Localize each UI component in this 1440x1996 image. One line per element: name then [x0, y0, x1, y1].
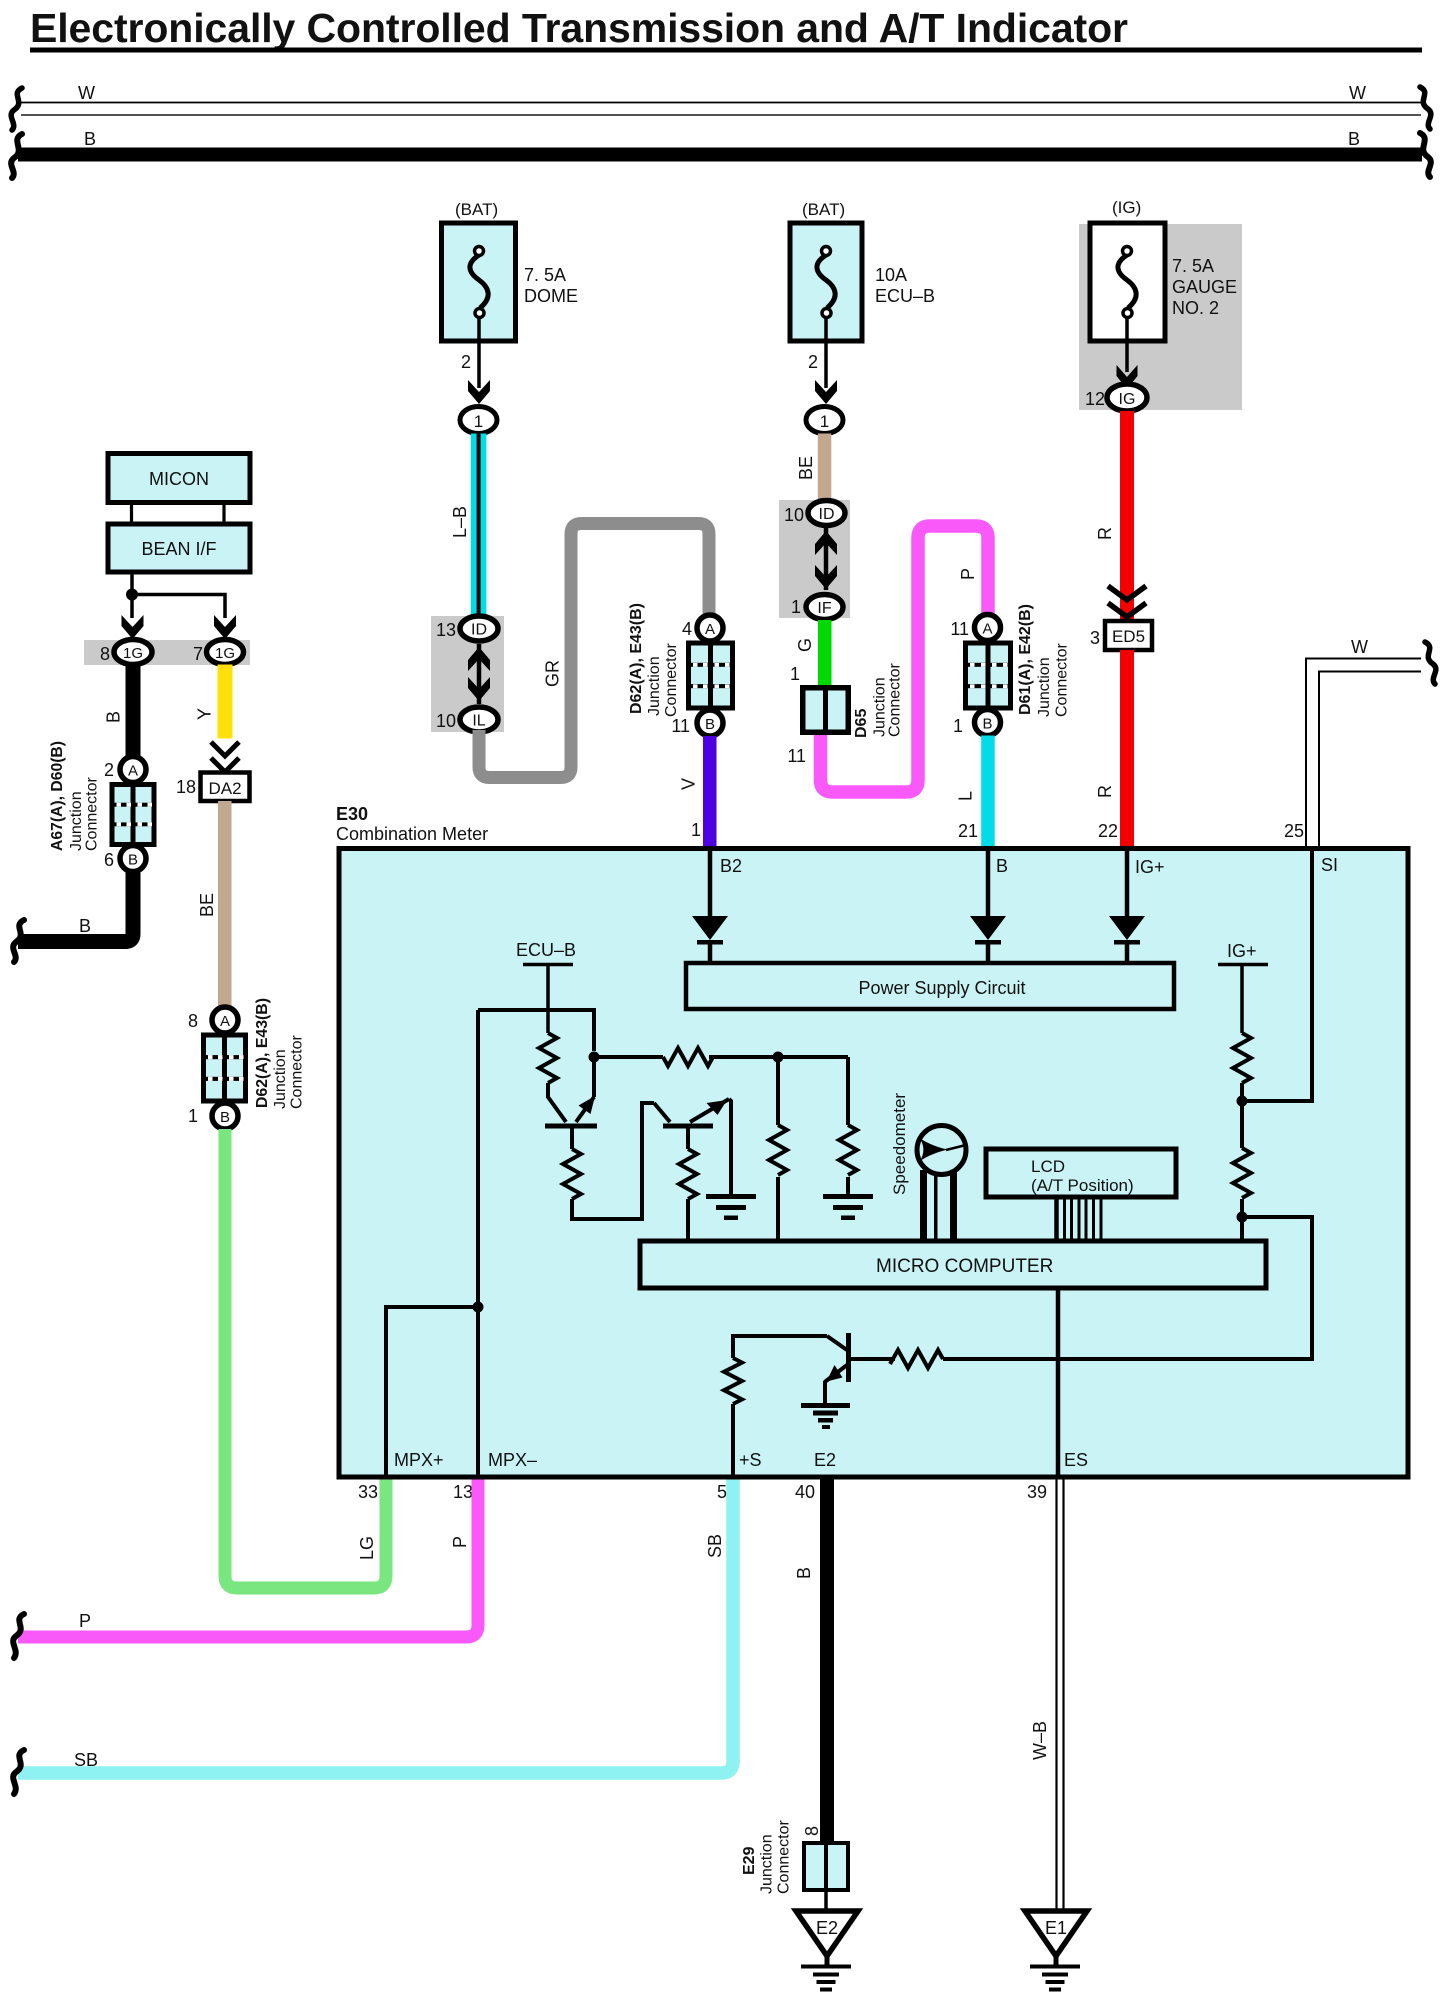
wire R6 to ground G2	[846, 1177, 850, 1195]
wire MPX branch horizontal	[478, 1010, 594, 1051]
svg-text:A: A	[220, 1013, 230, 1030]
connector circle B (D62)	[212, 1103, 238, 1129]
svg-text:Connector: Connector	[1054, 643, 1071, 717]
wire SB	[18, 1480, 733, 1774]
svg-text:D62(A), E43(B): D62(A), E43(B)	[254, 998, 271, 1108]
wire fuse GAUGE to IG	[1125, 317, 1129, 372]
arrow into connector IG	[1117, 365, 1138, 389]
svg-text:11: 11	[950, 619, 969, 639]
resistor R3	[679, 1149, 697, 1199]
gray band 1G	[84, 640, 250, 665]
svg-text:(BAT): (BAT)	[455, 200, 498, 219]
svg-text:IG+: IG+	[1227, 941, 1257, 961]
connector oval ID2	[808, 501, 845, 526]
svg-text:Power Supply Circuit: Power Supply Circuit	[858, 978, 1025, 998]
svg-text:Junction: Junction	[68, 791, 85, 851]
wire LG	[225, 1129, 386, 1588]
node C dot (SI join)	[1237, 1096, 1248, 1107]
svg-text:B: B	[982, 716, 992, 733]
svg-text:Connector: Connector	[289, 1035, 306, 1109]
wire node B down	[776, 1057, 780, 1125]
wire R upper	[1120, 411, 1134, 623]
svg-text:1: 1	[820, 412, 829, 431]
svg-text:SI: SI	[1321, 855, 1338, 875]
svg-text:1: 1	[791, 597, 801, 617]
wire W bus top	[21, 103, 1421, 116]
svg-text:ECU–B: ECU–B	[516, 940, 576, 960]
svg-text:13: 13	[453, 1482, 473, 1502]
box E30 Combination Meter	[339, 849, 1408, 1478]
svg-text:E29: E29	[741, 1846, 758, 1875]
speedometer	[917, 1126, 966, 1244]
wire fuse ECU-B to connector 1	[824, 317, 828, 388]
svg-text:R: R	[1095, 785, 1115, 798]
wire B to left break	[18, 871, 133, 942]
svg-text:B: B	[705, 716, 715, 733]
svg-text:+S: +S	[739, 1450, 762, 1470]
svg-text:ECU–B: ECU–B	[875, 286, 935, 306]
svg-text:2: 2	[808, 352, 818, 372]
wire MPX+ branch	[386, 1307, 478, 1477]
wire W-B	[1057, 1480, 1064, 1912]
wire L	[981, 736, 995, 847]
fuse 7.5A DOME	[442, 223, 516, 341]
svg-text:Connector: Connector	[84, 777, 101, 851]
svg-text:25: 25	[1284, 821, 1304, 841]
wire Y	[218, 665, 233, 739]
svg-text:BEAN I/F: BEAN I/F	[141, 539, 216, 559]
arrow into 7 1G	[214, 615, 236, 639]
svg-text:8: 8	[100, 644, 110, 664]
svg-text:1: 1	[188, 1106, 198, 1126]
svg-text:E2: E2	[814, 1450, 836, 1470]
svg-text:Y: Y	[195, 708, 215, 720]
break symbol B bus left	[11, 134, 22, 178]
svg-text:BE: BE	[197, 893, 217, 917]
svg-text:3: 3	[1090, 628, 1100, 648]
wire MPX+ vertical long	[476, 1010, 480, 1477]
title underline	[30, 48, 1422, 53]
wire Q3 emitter to ground G3	[825, 1380, 827, 1404]
wire node D to Q3 collector net	[943, 1217, 1312, 1359]
break symbol P left	[13, 1614, 24, 1658]
gray panel GAUGE fuse	[1079, 224, 1242, 410]
break symbol B bus right	[1420, 133, 1431, 177]
svg-text:11: 11	[671, 716, 690, 736]
svg-text:W–B: W–B	[1030, 1721, 1050, 1760]
svg-text:DA2: DA2	[208, 779, 241, 798]
svg-text:1: 1	[474, 412, 483, 431]
junction connector D62(A) E43(B) top	[686, 641, 735, 711]
svg-text:33: 33	[358, 1482, 378, 1502]
svg-text:B2: B2	[720, 856, 742, 876]
resistor R1	[539, 1033, 557, 1083]
box Power Supply Circuit	[686, 963, 1174, 1009]
svg-text:ID: ID	[471, 622, 487, 639]
svg-text:(IG): (IG)	[1112, 198, 1141, 217]
svg-text:21: 21	[958, 821, 978, 841]
svg-text:Connector: Connector	[887, 663, 904, 737]
connector oval 1 (ECU-B)	[806, 407, 843, 434]
svg-text:Electronically Controlled Tran: Electronically Controlled Transmission a…	[30, 5, 1128, 51]
ground G2	[823, 1194, 873, 1220]
node A dot	[589, 1052, 600, 1063]
svg-text:Junction: Junction	[646, 656, 663, 716]
connector circle B (D61)	[975, 710, 1001, 736]
svg-text:(A/T Position): (A/T Position)	[1031, 1176, 1134, 1195]
svg-text:1: 1	[953, 716, 963, 736]
wire R5 to micro computer	[776, 1177, 780, 1243]
connector circle A (D61)	[975, 615, 1001, 641]
svg-text:ID: ID	[819, 506, 835, 523]
connector oval 1G left	[114, 640, 152, 665]
svg-text:1G: 1G	[123, 645, 143, 662]
wire L-B	[471, 434, 487, 617]
svg-text:MICRO COMPUTER: MICRO COMPUTER	[876, 1256, 1053, 1277]
svg-text:6: 6	[104, 850, 114, 870]
wire Q2 emitter to ground G1	[729, 1099, 731, 1195]
box MICRO COMPUTER	[640, 1241, 1266, 1288]
svg-text:Junction: Junction	[759, 1834, 776, 1894]
wire P upper loop	[821, 526, 989, 792]
gray panel ID/IF	[779, 500, 850, 618]
arrow into connector 1 ECU-B	[815, 380, 837, 404]
wire R8 to micro computer	[1240, 1199, 1244, 1243]
wire E29 to ground E2	[824, 1892, 828, 1916]
double chevron arrow into ED5	[1108, 586, 1146, 617]
svg-text:12: 12	[1085, 389, 1105, 409]
svg-text:4: 4	[682, 619, 692, 639]
svg-text:2: 2	[461, 352, 471, 372]
svg-text:Connector: Connector	[776, 1820, 793, 1894]
junction connector D65	[800, 685, 851, 735]
svg-text:LG: LG	[357, 1536, 377, 1560]
wire R9 to Q3	[851, 1357, 895, 1361]
resistor R8	[1233, 1148, 1251, 1198]
wire Q2 base down	[686, 1126, 690, 1149]
svg-text:A: A	[705, 621, 715, 638]
svg-text:40: 40	[795, 1482, 815, 1502]
break symbol W bus left	[11, 88, 22, 130]
svg-text:P: P	[79, 1611, 91, 1631]
wire B2 to diode	[708, 848, 713, 916]
svg-text:E2: E2	[816, 1918, 838, 1938]
connector oval ID	[460, 616, 498, 641]
svg-text:D65: D65	[853, 709, 870, 738]
connector oval IF	[806, 595, 843, 620]
box LCD (A/T Position)	[986, 1149, 1176, 1197]
svg-text:1: 1	[790, 664, 800, 684]
connector box ED5	[1105, 621, 1152, 650]
svg-text:7: 7	[193, 644, 203, 664]
svg-text:BE: BE	[796, 456, 816, 480]
svg-text:11: 11	[787, 746, 806, 766]
supply rail ECU-B	[516, 940, 576, 1033]
svg-text:8: 8	[802, 1826, 822, 1836]
connector oval IL	[460, 707, 498, 732]
box MICON	[108, 454, 250, 503]
ground E1	[1025, 1911, 1087, 1992]
connector box DA2	[201, 773, 250, 802]
wire R4 to corner	[709, 1055, 848, 1059]
wire node A to R4	[594, 1055, 663, 1059]
wire fuse DOME to connector 1	[477, 317, 481, 388]
svg-text:(BAT): (BAT)	[802, 200, 845, 219]
wire B bus top	[18, 148, 1422, 162]
svg-text:7. 5A: 7. 5A	[1172, 256, 1214, 276]
svg-text:IF: IF	[817, 600, 831, 617]
node D dot	[1237, 1212, 1248, 1223]
svg-text:5: 5	[717, 1482, 727, 1502]
fuse 10A ECU-B	[790, 223, 862, 341]
resistor R10	[724, 1358, 742, 1404]
wire Q1 emitter to node A	[592, 1057, 596, 1097]
break symbol W bus right	[1420, 87, 1431, 129]
arrow into 8 1G	[122, 615, 144, 639]
box BEAN I/F	[108, 524, 250, 572]
wire R lower	[1120, 650, 1134, 846]
diode D2 (B)	[970, 916, 1006, 963]
svg-text:E30: E30	[336, 804, 368, 824]
svg-text:MPX–: MPX–	[488, 1450, 537, 1470]
svg-text:2: 2	[104, 760, 114, 780]
svg-text:IL: IL	[472, 713, 485, 730]
svg-text:18: 18	[176, 777, 196, 797]
svg-text:B: B	[104, 711, 124, 723]
wire W to SI	[1306, 659, 1421, 847]
junction arrows ID-IF	[815, 528, 837, 590]
ground G3	[801, 1403, 850, 1429]
connector oval 1G right	[207, 640, 244, 665]
svg-text:B: B	[128, 852, 138, 869]
svg-text:D62(A), E43(B): D62(A), E43(B)	[628, 603, 645, 714]
wire BE upper	[818, 434, 832, 501]
wire R1 to Q1	[546, 1083, 550, 1098]
resistor R7	[1233, 1033, 1251, 1083]
supply rail IG+ internal	[1218, 941, 1268, 1033]
svg-text:A67(A), D60(B): A67(A), D60(B)	[49, 741, 66, 851]
svg-text:A: A	[128, 763, 138, 780]
svg-text:P: P	[450, 1536, 470, 1548]
connector oval IG	[1107, 384, 1147, 411]
svg-text:ES: ES	[1064, 1450, 1088, 1470]
resistor R6	[839, 1125, 857, 1175]
svg-text:B: B	[84, 129, 96, 149]
wire ES from micro computer	[1056, 1288, 1061, 1477]
break symbol W right mid	[1425, 642, 1436, 684]
junction node dot	[126, 589, 138, 601]
svg-text:L–B: L–B	[450, 506, 470, 538]
svg-text:39: 39	[1027, 1482, 1047, 1502]
svg-text:GR: GR	[543, 660, 563, 687]
wire P lower	[18, 1480, 478, 1638]
svg-text:D61(A), E42(B): D61(A), E42(B)	[1017, 604, 1034, 715]
connector circle B (D62 top)	[697, 710, 723, 736]
svg-text:R: R	[1095, 527, 1115, 540]
svg-text:DOME: DOME	[524, 286, 578, 306]
resistor R2	[563, 1149, 581, 1199]
wire B (8-1G to A67 A)	[126, 665, 141, 758]
break symbol SB left	[13, 1750, 24, 1794]
svg-text:A: A	[982, 621, 992, 638]
wire branch to 8 1G	[130, 595, 134, 619]
junction connector D62(A) E43(B) left	[201, 1033, 248, 1104]
diode D1 (B2)	[692, 916, 728, 963]
svg-text:B: B	[220, 1109, 230, 1126]
svg-text:NO. 2: NO. 2	[1172, 298, 1219, 318]
wires MICON to BEAN I/F	[132, 502, 225, 524]
svg-text:10: 10	[784, 505, 804, 525]
svg-text:7. 5A: 7. 5A	[524, 265, 566, 285]
svg-text:W: W	[1351, 637, 1368, 657]
svg-text:MPX+: MPX+	[394, 1450, 444, 1470]
connector circle A (A67)	[120, 757, 146, 783]
wire BE lower	[218, 801, 232, 1008]
transistor Q3	[826, 1333, 895, 1382]
junction connector A67(A) D60(B)	[110, 782, 157, 847]
gray panel ID/IL	[431, 616, 504, 732]
svg-text:1: 1	[691, 820, 701, 840]
wire R2 to Q2 base	[572, 1103, 654, 1219]
svg-text:Junction: Junction	[272, 1049, 289, 1109]
wire BEAN I/F down	[130, 572, 134, 594]
svg-text:GAUGE: GAUGE	[1172, 277, 1237, 297]
svg-text:10A: 10A	[875, 265, 907, 285]
svg-text:Speedometer: Speedometer	[890, 1093, 909, 1195]
svg-text:Connector: Connector	[663, 643, 680, 717]
wire GR	[479, 524, 709, 778]
transistor Q1	[545, 1096, 597, 1126]
svg-text:V: V	[679, 778, 699, 790]
svg-text:MICON: MICON	[149, 469, 209, 489]
diode D3 (IG+)	[1109, 916, 1145, 963]
wire R3 to micro computer	[686, 1199, 690, 1243]
arrow into connector 1 DOME	[468, 380, 490, 404]
transistor Q2	[654, 1099, 729, 1126]
svg-text:L: L	[956, 791, 976, 801]
ground G1	[706, 1194, 756, 1220]
junction connector E29	[802, 1841, 850, 1892]
junction connector D61(A) E42(B)	[963, 641, 1013, 711]
svg-text:IG+: IG+	[1135, 857, 1165, 877]
svg-text:Junction: Junction	[1036, 657, 1053, 717]
svg-text:G: G	[795, 638, 815, 652]
node B dot	[773, 1052, 784, 1063]
svg-text:13: 13	[436, 620, 456, 640]
svg-text:LCD: LCD	[1031, 1157, 1065, 1176]
wire IG+ to diode	[1125, 848, 1130, 916]
wire V	[703, 736, 717, 846]
connector circle A (D62 top)	[697, 615, 723, 641]
svg-text:Combination Meter: Combination Meter	[336, 824, 488, 844]
break symbol B left mid	[13, 920, 24, 962]
junction arrows ID-IL	[468, 644, 490, 704]
wire corner down to R6	[846, 1057, 850, 1125]
node MPX dot	[473, 1302, 484, 1313]
double chevron arrow into DA2	[211, 742, 239, 772]
svg-text:P: P	[958, 568, 978, 580]
wire Q1 base down	[570, 1126, 574, 1149]
svg-text:W: W	[78, 83, 95, 103]
resistor R9	[890, 1350, 943, 1368]
svg-text:IG: IG	[1119, 391, 1136, 408]
svg-text:B: B	[996, 856, 1008, 876]
svg-text:B: B	[1348, 129, 1360, 149]
wire B to E29	[820, 1480, 834, 1842]
svg-text:1G: 1G	[215, 645, 235, 662]
wire R7 to R8	[1240, 1083, 1244, 1148]
wire +S up	[733, 1336, 827, 1477]
wire branch to 7 1G	[132, 595, 225, 619]
svg-text:B: B	[794, 1567, 814, 1579]
svg-text:22: 22	[1098, 821, 1118, 841]
connector oval 1 (DOME)	[460, 407, 497, 434]
svg-text:10: 10	[436, 711, 456, 731]
bus LCD to micro computer	[1057, 1197, 1102, 1243]
wire G	[818, 620, 832, 686]
connector circle A (D62)	[212, 1007, 238, 1033]
wire SI vertical	[1242, 848, 1312, 1101]
svg-text:W: W	[1349, 83, 1366, 103]
fuse 7.5A GAUGE NO.2	[1090, 223, 1165, 341]
svg-text:ED5: ED5	[1112, 627, 1145, 646]
resistor R5	[769, 1125, 787, 1175]
svg-text:B: B	[79, 916, 91, 936]
svg-text:E1: E1	[1045, 1918, 1067, 1938]
svg-text:8: 8	[188, 1011, 198, 1031]
svg-text:SB: SB	[74, 1750, 98, 1770]
wire B to diode	[986, 848, 991, 916]
connector circle B (A67)	[120, 846, 146, 872]
svg-text:SB: SB	[705, 1534, 725, 1558]
ground E2	[796, 1911, 858, 1992]
resistor R4	[663, 1048, 713, 1066]
